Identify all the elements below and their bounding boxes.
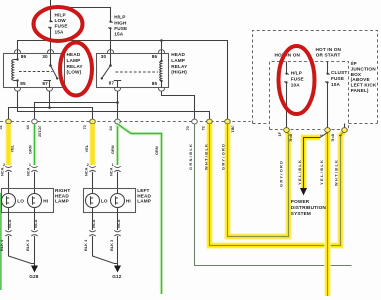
svg-text:YEL: YEL bbox=[84, 144, 89, 152]
svg-text:GRN: GRN bbox=[27, 145, 32, 154]
svg-text:NCA: NCA bbox=[33, 219, 38, 228]
svg-text:FUSE: FUSE bbox=[291, 77, 304, 82]
connector ring 70 bbox=[192, 119, 198, 124]
wire: left LO to ground join bbox=[93, 236, 118, 264]
svg-text:NCA: NCA bbox=[7, 219, 12, 228]
wire: right LO to ground join bbox=[9, 236, 35, 264]
svg-text:BLK 3: BLK 3 bbox=[109, 239, 114, 251]
svg-text:HIGH: HIGH bbox=[114, 20, 127, 25]
svg-text:GRY/ORD: GRY/ORD bbox=[220, 144, 225, 170]
svg-text:RELAY: RELAY bbox=[67, 64, 84, 69]
wire GRN/BLK: dimmer run bbox=[195, 124, 352, 266]
inline connector left LO ground bbox=[89, 230, 95, 236]
svg-text:70: 70 bbox=[185, 126, 190, 130]
relay K1 switch from pin 30 bbox=[49, 54, 58, 80]
wire: into right lamp LO bbox=[8, 172, 10, 194]
svg-text:(LOW): (LOW) bbox=[67, 70, 82, 75]
svg-text:YEL/BLK: YEL/BLK bbox=[319, 160, 324, 185]
svg-text:GRN/BLK: GRN/BLK bbox=[188, 144, 193, 170]
relay K2 contact 87 bbox=[114, 81, 121, 88]
svg-text:GRN: GRN bbox=[110, 145, 115, 154]
svg-text:POWER: POWER bbox=[291, 199, 310, 204]
svg-text:HOT IN ON: HOT IN ON bbox=[316, 47, 342, 52]
svg-text:IP-E: IP-E bbox=[289, 134, 294, 142]
svg-text:15A: 15A bbox=[55, 29, 65, 34]
wire: branch to H/LP HIGH fuse bbox=[51, 8, 111, 22]
svg-text:HI: HI bbox=[43, 199, 48, 204]
svg-text:86: 86 bbox=[21, 54, 27, 59]
node: low beam junction bbox=[48, 106, 51, 109]
relay K2 coil bbox=[160, 54, 163, 88]
svg-text:1F: 1F bbox=[277, 131, 282, 136]
arrow: to power distribution system bbox=[300, 188, 307, 196]
svg-text:NCA: NCA bbox=[91, 219, 96, 228]
connector arc above relay2 pin 30 bbox=[108, 50, 114, 53]
wire: right lamp HI ground lead bbox=[34, 208, 36, 231]
wire: relay2 87 drop bbox=[117, 91, 119, 119]
fuse: H/LP LOW FUSE 15A bbox=[48, 20, 52, 29]
dashed actuator link K1 bbox=[19, 71, 53, 73]
svg-text:87: 87 bbox=[42, 81, 48, 86]
connector arc above relay1 pin 30 bbox=[48, 50, 54, 53]
svg-text:G28: G28 bbox=[29, 274, 39, 279]
svg-text:H/LP: H/LP bbox=[291, 71, 302, 76]
svg-text:NCA: NCA bbox=[0, 167, 4, 176]
svg-text:FUSE: FUSE bbox=[55, 24, 68, 29]
wire: left lamp LO ground lead bbox=[92, 208, 94, 231]
wire: relay2 85 to GRN/BLK connector bbox=[162, 91, 195, 119]
relay K2 switch from pin 30 bbox=[101, 54, 112, 80]
wire YEL: right lamp low feed bbox=[5, 124, 11, 165]
box: I/P junction box outer dashed bbox=[253, 31, 378, 124]
svg-text:JUNCTION: JUNCTION bbox=[351, 66, 377, 71]
svg-text:SYSTEM: SYSTEM bbox=[291, 211, 311, 216]
inline connector at right lamp LO bbox=[5, 166, 11, 172]
svg-text:GRY/ORD: GRY/ORD bbox=[278, 161, 283, 187]
wire: into right lamp HI bbox=[34, 172, 36, 194]
inline connector right HI ground bbox=[31, 230, 37, 236]
connector arc below relay1 pin 87 bbox=[47, 88, 53, 91]
highlight ellipse around H/LP LOW fuse bbox=[34, 7, 83, 41]
svg-text:LAMP: LAMP bbox=[171, 58, 185, 63]
wire: H/LP HIGH fuse down to relay 30 terminal bbox=[110, 29, 112, 54]
connector ring JB1 bbox=[225, 119, 231, 124]
svg-text:10A: 10A bbox=[291, 83, 301, 88]
bulb: right LO bbox=[2, 194, 16, 208]
wire: H/LP fuse feed bbox=[286, 62, 288, 74]
svg-text:15A: 15A bbox=[114, 32, 124, 37]
connector ring: H/LP fuse output bbox=[284, 128, 290, 133]
box: LEFT HEAD LAMP bbox=[84, 189, 136, 213]
wire: left page edge green run bbox=[0, 193, 2, 290]
wire WHT/BLK: outer U run bbox=[210, 124, 344, 246]
wire: left HI to ground bbox=[117, 236, 119, 266]
svg-text:NCA: NCA bbox=[108, 167, 113, 176]
wire YEL: left lamp low feed bbox=[89, 124, 95, 165]
svg-text:I/P: I/P bbox=[351, 61, 357, 66]
inline connector at left lamp HI bbox=[114, 166, 120, 172]
inline connector left HI ground bbox=[114, 230, 120, 236]
svg-text:10A: 10A bbox=[331, 82, 341, 87]
svg-text:LEFT KICK: LEFT KICK bbox=[351, 83, 377, 88]
svg-text:PANEL): PANEL) bbox=[351, 88, 369, 93]
connector ring: CLUST fuse output bbox=[325, 128, 331, 133]
fuse: H/LP HIGH FUSE 15A bbox=[108, 21, 112, 30]
inline connector at left lamp LO bbox=[89, 166, 95, 172]
wire: into left lamp LO bbox=[92, 172, 94, 194]
svg-text:H/LP: H/LP bbox=[114, 15, 125, 20]
relay K1: HEAD LAMP RELAY (LOW) box bbox=[4, 54, 65, 88]
svg-text:LOW: LOW bbox=[55, 18, 67, 23]
wire: left lamp HI ground lead bbox=[117, 208, 119, 231]
svg-text:FUSE: FUSE bbox=[331, 76, 344, 81]
svg-text:LAMP: LAMP bbox=[55, 199, 69, 204]
connector arc above relay2 pin 86 bbox=[159, 50, 165, 53]
connector arc above relay1 pin 86 bbox=[15, 50, 21, 53]
connector ring 64 bbox=[115, 119, 121, 124]
svg-text:LAMP: LAMP bbox=[137, 199, 151, 204]
fuse: H/LP FUSE 10A bbox=[284, 73, 288, 84]
wire: CLUST fuse feed bbox=[327, 62, 329, 74]
svg-text:RELAY: RELAY bbox=[171, 64, 188, 69]
node: high beam junction bbox=[116, 101, 119, 104]
svg-text:FUSE: FUSE bbox=[114, 26, 127, 31]
svg-text:NCA: NCA bbox=[116, 219, 121, 228]
wire: CLUST fuse to connector bbox=[327, 83, 329, 128]
wire: low beam feed rail to both YEL connectors bbox=[9, 108, 93, 120]
svg-text:G12: G12 bbox=[112, 274, 122, 279]
relay K1 coil bbox=[12, 54, 19, 88]
box: RIGHT HEAD LAMP bbox=[2, 189, 54, 213]
svg-text:CLUST: CLUST bbox=[331, 70, 347, 75]
svg-text:JC102: JC102 bbox=[38, 126, 43, 138]
svg-text:HEAD: HEAD bbox=[67, 52, 81, 57]
wire GRY/ORD: inner U run bbox=[228, 124, 289, 237]
connector arc below relay2 pin 87 bbox=[115, 88, 121, 91]
svg-text:BOX: BOX bbox=[351, 72, 362, 77]
connector ring 73 bbox=[90, 119, 96, 124]
svg-text:(HIGH): (HIGH) bbox=[171, 70, 187, 75]
wire GRN: branch to interior run bbox=[118, 124, 162, 294]
svg-text:LO: LO bbox=[17, 199, 24, 204]
dashed actuator link K2 bbox=[116, 71, 159, 73]
svg-text:BLK 3: BLK 3 bbox=[25, 239, 30, 251]
svg-text:30: 30 bbox=[42, 54, 48, 59]
svg-text:LAMP: LAMP bbox=[67, 58, 81, 63]
wire YEL/BLK: long drop bbox=[324, 133, 330, 297]
svg-text:85: 85 bbox=[20, 81, 26, 86]
svg-text:87: 87 bbox=[109, 80, 115, 85]
svg-text:LO: LO bbox=[101, 199, 108, 204]
wire: coil supply bus bbox=[18, 41, 228, 120]
svg-text:IP-E: IP-E bbox=[331, 134, 336, 142]
wire: into left lamp HI bbox=[117, 172, 119, 194]
wire: relay1 87 drop bbox=[49, 91, 51, 107]
svg-text:YEL: YEL bbox=[10, 144, 15, 152]
fuse: CLUST FUSE 10A bbox=[325, 73, 329, 84]
connector ring 44 bbox=[32, 119, 38, 124]
connector ring 72 bbox=[207, 119, 213, 124]
svg-text:OR START: OR START bbox=[316, 53, 341, 58]
svg-text:HEAD: HEAD bbox=[171, 52, 185, 57]
box: fuse block inner dashed bbox=[270, 62, 349, 130]
highlight ellipse around HEAD LAMP RELAY (LOW) bbox=[60, 43, 92, 96]
svg-text:DISTRIBUTION: DISTRIBUTION bbox=[291, 205, 327, 210]
wire: relay1 85 to WHT/BLK connector bbox=[18, 91, 210, 119]
highlight ellipse around H/LP FUSE 10A bbox=[279, 46, 315, 114]
svg-text:GRN: GRN bbox=[154, 146, 159, 155]
svg-text:30: 30 bbox=[101, 54, 107, 59]
svg-text:BLK 4: BLK 4 bbox=[83, 239, 88, 251]
svg-text:HI: HI bbox=[126, 199, 131, 204]
svg-text:86: 86 bbox=[152, 54, 158, 59]
node: junction bus to high relay coil bbox=[160, 39, 163, 42]
wire: H/LP LOW fuse down to relay 30 terminal bbox=[50, 29, 52, 54]
wire: H/LP fuse to connector bbox=[286, 83, 288, 128]
wire: harness pass-through dashed line bbox=[0, 121, 251, 123]
node: feed branch junction bbox=[49, 6, 51, 8]
wire YEL/BLK: branch to power distribution bbox=[304, 133, 328, 189]
svg-text:JB1: JB1 bbox=[231, 126, 236, 134]
relay K1 contact 87 bbox=[44, 81, 52, 88]
inline connector at right lamp HI bbox=[31, 166, 37, 172]
ground G12 bbox=[112, 266, 122, 280]
svg-text:BLK 4: BLK 4 bbox=[0, 239, 4, 251]
wire: battery feed into H/LP LOW fuse bbox=[50, 0, 52, 21]
wire: bus drop to high relay 86 bbox=[161, 41, 163, 54]
wire GRN: right lamp high feed bbox=[33, 124, 37, 165]
bulb: left LO bbox=[86, 194, 100, 208]
wire: WHT/BLK stub in box bbox=[344, 124, 346, 128]
connector arc below relay1 pin 85 bbox=[15, 88, 21, 91]
bulb: right HI bbox=[28, 194, 42, 208]
inline connector right LO ground bbox=[5, 230, 11, 236]
bulb: left HI bbox=[111, 194, 125, 208]
svg-text:YEL/BLK: YEL/BLK bbox=[297, 160, 302, 185]
svg-text:NCA: NCA bbox=[25, 167, 30, 176]
wire: high beam feed rail to GRN connector bbox=[35, 103, 118, 120]
ground G28 bbox=[29, 266, 39, 280]
svg-text:NCA: NCA bbox=[83, 167, 88, 176]
relay K2: HEAD LAMP RELAY (HIGH) box bbox=[97, 54, 169, 88]
svg-text:(ABOVE: (ABOVE bbox=[351, 77, 370, 82]
wire: right HI to ground bbox=[34, 236, 36, 266]
connector ring: WHT/BLK return bbox=[342, 128, 348, 133]
svg-text:85: 85 bbox=[152, 81, 158, 86]
connector ring 31 bbox=[6, 119, 12, 124]
wire GRN: left lamp high feed bbox=[116, 124, 120, 165]
wire: right lamp LO ground lead bbox=[8, 208, 10, 231]
connector arc below relay2 pin 85 bbox=[159, 88, 165, 91]
svg-text:H/LP: H/LP bbox=[55, 13, 66, 18]
